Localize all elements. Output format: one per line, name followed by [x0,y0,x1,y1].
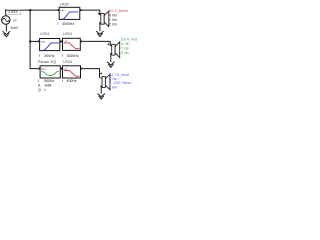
wire: M2 to mid speaker [82,41,110,45]
value box [6,10,20,15]
svg-text:0°: 0° [13,19,17,23]
svg-text:f: f [62,79,63,83]
svg-text:LR24: LR24 [63,60,72,64]
svg-text:Param EQ: Param EQ [38,59,57,64]
svg-text:f: f [38,79,39,83]
svg-text:D3 4_mid: D3 4_mid [121,38,137,42]
svg-text:Z 0in: Z 0in [109,22,117,26]
svg-text:D2 1_tweet: D2 1_tweet [109,9,129,13]
ground (mid) [107,54,114,68]
svg-text:550Hz: 550Hz [44,79,54,83]
ground (generator) [3,24,11,37]
svg-text:Y 0in: Y 0in [109,18,118,22]
svg-text:Y 0in: Y 0in [121,47,130,51]
plus mark tweeter [98,12,100,14]
wire: tweeter block to speaker [82,10,100,15]
svg-text:1mΩ: 1mΩ [10,26,18,30]
svg-text:LR24: LR24 [63,32,72,36]
node: mid junction [29,40,31,42]
wire: M1 to M2 [60,40,63,42]
svg-text:f: f [62,54,63,58]
svg-text:LR24: LR24 [60,3,69,7]
svg-text:400Hz: 400Hz [67,79,77,83]
plus mark woofer [100,73,102,75]
svg-text:3000Hz: 3000Hz [67,54,79,58]
wire: W1 to W2 [60,68,62,70]
svg-text:1: 1 [44,88,46,92]
svg-text:HP: HP [60,9,64,13]
filter block U_W1 Param EQ [38,59,63,92]
plus mark mid [108,43,110,45]
svg-text:X 0in: X 0in [109,13,118,17]
wire: mid branch [30,40,38,42]
svg-text:Z 0in: Z 0in [121,51,129,55]
node: top junction [29,9,31,11]
ground (tweeter) [96,23,103,37]
speaker D2 tweeter [99,11,109,27]
wire: W2 to woofer speaker [82,69,99,78]
svg-text:f: f [39,54,40,58]
filter block U_M2 mid LP LR24 [61,32,83,58]
wire: generator top stub and main top wire [6,10,58,16]
speaker D3 mid [110,42,120,58]
filter block U_M1 mid HP LR24 [38,32,62,58]
generator V1 [2,16,10,24]
wire: vertical trunk [30,10,38,69]
svg-text:EQ: EQ [41,67,46,71]
speaker D1 woofer [100,74,110,90]
svg-text:LR24: LR24 [40,32,49,36]
svg-text:X 0in: X 0in [121,42,130,46]
node: source top corner [5,9,7,11]
svg-text:f: f [57,22,58,26]
svg-text:Z 0in: Z 0in [109,85,117,89]
svg-text:300Hz: 300Hz [44,54,54,58]
svg-text:HP: HP [41,40,45,44]
filter block U_T tweeter HP LR24 [57,3,82,26]
svg-text:3000Hz: 3000Hz [62,22,75,26]
svg-text:Q: Q [38,88,41,92]
svg-text:2.83V: 2.83V [8,10,18,14]
svg-text:-6dB: -6dB [44,83,52,87]
filter block U_W2 woofer LP LR24 [61,60,83,83]
ground (woofer) [98,86,105,99]
